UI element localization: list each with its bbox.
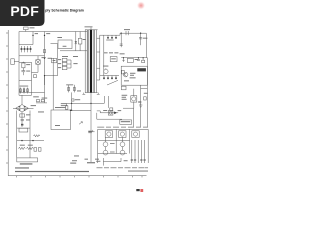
label Q602 line 1 (122, 94, 128, 97)
wire: bank divider 2 (129, 129, 131, 153)
label block title tag (137, 68, 146, 71)
polarity arrow mark (79, 122, 82, 125)
left margin ruler line (7, 30, 9, 176)
wire: branch at C601 (32, 32, 34, 45)
diode D633 (110, 108, 113, 111)
wire: stub to branch bus (32, 71, 39, 73)
label L601 (124, 28, 130, 31)
wire: rectifier output bus (100, 75, 119, 77)
transistor Q611 cell (119, 131, 126, 138)
label C620 row 1 (104, 51, 108, 54)
resistor R602 body (44, 49, 46, 52)
wire: primary lower bus (19, 92, 45, 94)
label C601 (35, 32, 38, 35)
diode D620 drop 1 (107, 35, 109, 38)
wire: filter column cross tie (17, 127, 30, 129)
label C630 (143, 37, 148, 40)
diode pin drop 2 (107, 76, 109, 80)
node junction dot (71, 103, 72, 104)
label R608 (28, 144, 33, 147)
wire: branch below box (44, 76, 46, 85)
wire: bus above bridge (19, 94, 32, 96)
label shield box (55, 106, 61, 109)
wire: thermistor top lead (37, 56, 39, 60)
label footer net 1 (70, 163, 76, 164)
bottom margin ruler line (8, 175, 146, 177)
inductor L601 on bus (126, 31, 128, 35)
node junction dot (32, 35, 33, 36)
diode D631 (144, 97, 147, 100)
wire: stub to branch (19, 61, 32, 63)
label pin 2 (58, 62, 61, 65)
label IC601 (57, 36, 62, 39)
label D623 (103, 65, 108, 68)
wire: thermistor bottom lead (37, 64, 39, 72)
label net B+ (120, 52, 125, 55)
capacitor C603 (37, 100, 40, 102)
label arrow net 2 (72, 159, 77, 162)
label pin 1 (58, 58, 61, 61)
PDF badge text (10, 3, 39, 19)
wire: secondary ground bus (67, 102, 104, 104)
wire: photocoupler top lead (79, 32, 81, 39)
wire: top bus jog (119, 33, 121, 35)
diode D610 (65, 103, 68, 109)
transistor Q613 (103, 137, 108, 146)
label Q601 line 1 (130, 72, 135, 75)
node junction dot (44, 35, 45, 36)
wire: lower filter bus (19, 80, 32, 82)
diode pin drop 3 (111, 76, 113, 80)
node junction dot (90, 103, 91, 104)
bridge inner diodes (19, 106, 26, 111)
capacitor C640 (131, 159, 133, 160)
label bank left note (88, 131, 92, 133)
resistor R605 (27, 88, 29, 94)
bridge rectifier D605 diamond (16, 105, 29, 112)
label net name (55, 124, 60, 127)
terminal strip TB601 (17, 158, 38, 162)
transistor Q610 cell (105, 131, 112, 138)
label R630 (103, 109, 107, 112)
transistor Q615 (103, 147, 108, 155)
node junction dot (143, 57, 144, 58)
AC inlet connector J601 (11, 59, 19, 65)
wire: relay drive vertical (75, 32, 77, 51)
connector CN630 box (120, 120, 132, 124)
node junction dot (71, 110, 72, 111)
page number 9-5 (136, 189, 143, 192)
wire: sense return (97, 118, 122, 120)
label C605 (26, 119, 30, 122)
wire: sense line stub (97, 111, 100, 113)
label primary net (73, 55, 78, 58)
wire: Q602 collector (133, 89, 135, 96)
wire: secondary return leg B (108, 96, 110, 108)
wire: output rail 2 (140, 105, 142, 127)
fuse F601 (24, 27, 29, 32)
capacitor C634 (138, 101, 141, 102)
filter block FL601 (52, 58, 57, 62)
red marker dot artifact (137, 1, 145, 9)
wire: low bus with taps (17, 140, 44, 142)
wire: branch at R602 (44, 32, 46, 103)
label PC601 (83, 38, 86, 41)
node junction dot (140, 33, 141, 34)
svg-text:PDF: PDF (10, 3, 39, 19)
control IC601 box (58, 40, 72, 49)
regulator VR601 box (127, 58, 133, 62)
wire: center tap chassis stub (88, 130, 94, 132)
wire: primary return bus (60, 50, 88, 52)
label D631 (144, 92, 148, 95)
capacitor C630 (139, 38, 142, 39)
varistor Z601 (34, 75, 37, 78)
thermistor TH601 crossed box (36, 60, 40, 64)
diode D603 (27, 46, 29, 52)
transformer T601 bottom stub left (82, 93, 85, 95)
capacitor C606 (34, 148, 37, 152)
label Z601 (48, 57, 52, 60)
label footer fine print (128, 171, 148, 172)
capacitor C607 (38, 148, 41, 152)
label pin 3 (58, 66, 61, 69)
transistor Q601 (123, 72, 128, 77)
label F601 value (30, 26, 35, 29)
wire: connector leads to primary (67, 60, 71, 68)
node junction dot (21, 140, 22, 141)
wire: sense line top (100, 112, 118, 114)
label output row dashes (97, 166, 149, 169)
photocoupler PC601 (78, 38, 82, 44)
diode pin drop 4 (115, 76, 117, 80)
title text (45, 9, 84, 13)
label output stub (124, 159, 128, 162)
diode D607 (75, 41, 77, 44)
wire: secondary rail B (103, 35, 105, 75)
sub-circuit box outline (121, 66, 147, 85)
label CN601 (62, 55, 68, 58)
ground symbol (139, 103, 142, 108)
label Q601 line 3 (130, 76, 136, 79)
label Q601 line 2 (130, 74, 134, 77)
node junction dot (70, 110, 71, 111)
wire: regulator bus (121, 57, 147, 59)
resistor R610 (68, 85, 70, 93)
label arrow net (74, 155, 79, 158)
capacitor C631 (120, 44, 123, 45)
label R607 (20, 144, 25, 147)
label Q602 line 2 (122, 96, 126, 99)
connector CN601 pin 1 (62, 58, 67, 61)
zener D630 (122, 58, 124, 62)
label note text line 3 (61, 106, 66, 109)
label CN630 (121, 121, 130, 122)
resistor R606 (20, 114, 25, 117)
resistor R611 (74, 85, 76, 93)
wire: C630 net down (140, 85, 142, 105)
label R610 R611 (66, 83, 73, 86)
wire: Q602 emitter (133, 102, 135, 108)
resistor R612 (72, 99, 74, 101)
wire: sub box top edge (51, 43, 58, 45)
label cell values 2 (110, 151, 115, 154)
capacitor C604 (41, 100, 44, 102)
wire: cap row lead (36, 102, 47, 104)
transistor Q612 cell (132, 131, 139, 138)
capacitor C641 (134, 159, 136, 160)
node junction dot (121, 33, 122, 34)
label divider net (77, 90, 81, 93)
diode D604 (30, 46, 32, 52)
capacitor C632 (137, 58, 140, 61)
transformer T601 frame top (85, 29, 98, 31)
left ruler tick marks (6, 33, 8, 163)
PDF badge (0, 0, 45, 26)
transformer T601 bottom stub right (97, 93, 100, 95)
diode D601 (21, 46, 23, 52)
diode pin drop 1 (103, 76, 105, 80)
transistor Q614 (120, 137, 125, 146)
resistor R608 zigzag (27, 147, 34, 149)
transformer T601 core bar (90, 30, 92, 93)
wire: output rail 1 (133, 108, 135, 127)
wire: filter column left rail (16, 111, 18, 158)
label R601 (26, 63, 30, 66)
label footer net 2 (87, 162, 95, 163)
label bank bottom left (96, 160, 100, 163)
connector CN601 pin 2 (62, 62, 67, 65)
label resistor values (33, 95, 39, 98)
relay RL601 box (19, 128, 28, 132)
capacitor C643 (143, 159, 145, 160)
transformer T601 secondary tap 2 (97, 51, 100, 53)
resistor R603 (20, 88, 22, 94)
wire: secondary return leg A (103, 96, 105, 103)
capacitor C602 (21, 68, 25, 75)
label TB601 (20, 163, 33, 164)
wire: divider vertical (71, 92, 73, 110)
label transformer tap right (95, 158, 99, 161)
transformer T601 label (85, 25, 93, 28)
label C621 row 2 (109, 51, 113, 54)
transistor Q616 (120, 147, 125, 155)
wire: secondary top bus (100, 34, 120, 36)
diode D606 (21, 124, 23, 126)
wire: rectified rail down (21, 112, 23, 127)
wire: right border drop (145, 33, 147, 58)
wire: output rail r5 (144, 140, 146, 163)
label note text line 1 (61, 102, 67, 105)
wire: secondary rail A (99, 35, 101, 80)
wire: center tap down (90, 93, 92, 162)
label Q602 line 3 (122, 98, 127, 101)
transformer T601 frame bottom (85, 92, 98, 94)
label cap values (42, 97, 48, 100)
transformer T601 core line (93, 30, 96, 93)
label R612 (75, 98, 80, 101)
wire: AC mains top bus (19, 31, 88, 33)
resistor R604 (23, 88, 25, 94)
wire: filter return bus (19, 55, 45, 57)
label D605 (31, 104, 36, 107)
regulator bank box left edge (97, 129, 99, 163)
transformer T601 winding shade (87, 30, 89, 93)
wire: output rail r2 (134, 140, 136, 163)
label diode row (106, 39, 113, 42)
svg-text:ply Schematic Diagram: ply Schematic Diagram (45, 9, 84, 13)
label output header dashes (97, 126, 148, 129)
node junction dot (44, 58, 45, 59)
label primary voltage (73, 62, 77, 65)
resistor R613 zigzag (34, 135, 40, 137)
diode D602 (24, 46, 26, 52)
wire: bank mid bus (98, 153, 127, 155)
wire: filter column right rail (29, 111, 31, 158)
wire: left input branch down (18, 32, 20, 96)
label base net (124, 79, 129, 82)
wire: output rail r1 (131, 140, 133, 163)
wire: output rail r3 (137, 140, 139, 163)
label VR601 (135, 58, 138, 61)
label D632 (118, 109, 122, 112)
diode D622 drop 3 (115, 35, 117, 38)
capacitor C605 (21, 120, 24, 121)
label transformer tap left (85, 158, 89, 161)
wire: bridge input drop (21, 95, 23, 104)
label R606 (26, 113, 30, 116)
wire: sub box bottom edge (45, 75, 58, 77)
wire: mid vertical feeder (52, 58, 54, 110)
regulator bank box right edge (147, 129, 149, 163)
label R602 (46, 32, 50, 35)
wire: photocoupler bottom lead (79, 44, 81, 51)
wire: C631 branch (120, 33, 122, 47)
transformer T601 right winding rail (96, 30, 98, 93)
resistor R601 (22, 62, 25, 68)
transformer T601 top pin tick (90, 27, 92, 29)
wire: slanted feed line (107, 80, 118, 85)
resistor R607 zigzag (19, 147, 26, 149)
wire: sense drop (96, 113, 98, 119)
wire: C630 branch (140, 33, 142, 45)
wire: sub box right edge (57, 44, 59, 76)
regulator bank box top edge (98, 128, 149, 130)
capacitor C633 (142, 58, 145, 63)
node junction dot (138, 57, 139, 58)
transformer T601 secondary tap 4 (97, 79, 100, 81)
label R603-R605 row (20, 85, 29, 88)
label notes line 1 (15, 167, 29, 168)
relay driver boxed diode (108, 111, 113, 116)
label C602 (26, 70, 30, 73)
transformer T601 secondary tap 3 (97, 67, 100, 69)
label TH601 (42, 56, 46, 59)
wire: output stub bus (103, 158, 121, 166)
transistor D623 rectifier circle (104, 68, 108, 73)
label bridge input (38, 111, 44, 114)
label notes line 2 (15, 171, 89, 172)
wire: link bar (141, 88, 148, 90)
label cell values 1 (110, 142, 115, 145)
transistor Q602 box (131, 96, 137, 102)
label C622 row 3 (114, 51, 118, 54)
wire: divider bottom bus (72, 109, 91, 111)
wire: noise filter bus (19, 44, 33, 46)
connector CN601 pin 3 (62, 66, 67, 69)
transformer T601 secondary tap 1 (97, 37, 100, 39)
capacitor C642 (140, 159, 142, 160)
IC620 box (110, 57, 117, 62)
label note text line 2 (61, 104, 68, 107)
shield box outline (51, 110, 71, 130)
wire: output rail r4 (140, 140, 142, 163)
node junction dot (32, 140, 33, 141)
node junction dot (44, 75, 45, 76)
wire: B+ top bus (120, 32, 146, 34)
connector tab (122, 70, 125, 74)
wire: bank upper bus (98, 139, 130, 141)
node junction dot (123, 57, 124, 58)
diode D621 drop 2 (111, 35, 113, 38)
wire: protection bus (123, 107, 134, 109)
connector CN602 box (121, 86, 126, 90)
wire: secondary left branch (31, 62, 33, 95)
wire: bridge horizontal feed (13, 107, 34, 109)
label IC601 pins (63, 45, 67, 48)
transformer T601 left winding rail (84, 30, 86, 93)
bottom ruler tick marks (17, 176, 143, 178)
diode D632 (114, 112, 117, 115)
wire: bank divider 1 (115, 129, 117, 153)
wire: right border mid (146, 58, 148, 128)
